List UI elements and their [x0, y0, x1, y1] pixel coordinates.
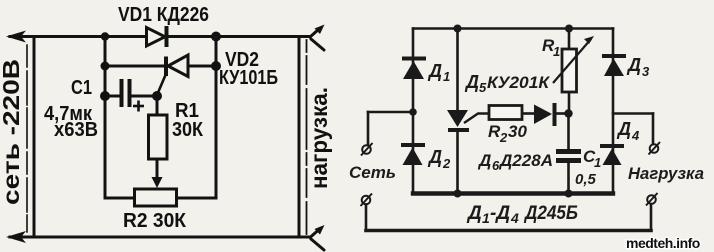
- label C1 plus sign: [133, 101, 144, 112]
- svg-text:сеть -220В: сеть -220В: [0, 59, 24, 205]
- node: gate/C1/R1 junction: [152, 91, 162, 101]
- svg-text:С1: С1: [71, 77, 92, 99]
- node: bottom rail / C1: [565, 190, 573, 198]
- wire: AC node right to load terminal: [613, 112, 653, 115]
- wire: left boundary vertical (thick): [33, 38, 36, 235]
- wire: thyristor anode lead: [456, 29, 459, 111]
- wire: bridge left vertical: [412, 29, 415, 194]
- node: VD2 row / left branch: [101, 62, 110, 71]
- diode Д4: [600, 146, 624, 165]
- wire: C1 row horizontal right: [132, 95, 158, 98]
- wire: R1 bottom lead to wiper arrow: [156, 159, 159, 181]
- wire: mains lower terminal to bottom wire: [365, 205, 368, 231]
- node: top rail / thyristor: [454, 25, 462, 33]
- wire: Д5 gate lead: [464, 114, 489, 124]
- wire: R1 bottom lead: [568, 92, 571, 114]
- svg-text:30: 30: [508, 122, 527, 141]
- svg-text:1: 1: [553, 44, 560, 59]
- fork: load terminal bottom-right: [310, 230, 324, 251]
- node: R1/R2/C1 junction: [564, 109, 572, 117]
- capacitor C1 (left plate): [120, 79, 124, 107]
- svg-text:Д228А: Д228А: [498, 151, 553, 170]
- arrow: R1 adjustment diagonal: [553, 39, 591, 83]
- wire: right boundary vertical (thin broken): [306, 40, 308, 234]
- svg-text:0,5: 0,5: [575, 171, 597, 188]
- wire: inner right vertical branch: [215, 37, 218, 199]
- wire: right boundary vertical (thick): [298, 38, 301, 235]
- svg-text:2: 2: [442, 156, 451, 171]
- svg-text:medteh.info: medteh.info: [626, 235, 700, 251]
- wire: inner left vertical branch: [104, 37, 107, 199]
- wire: VD2 gate lead: [157, 75, 166, 95]
- svg-text:нагрузка.: нагрузка.: [306, 87, 332, 189]
- arrow: mains top (left-pointing): [6, 31, 26, 43]
- svg-text:Д: Д: [466, 203, 482, 224]
- svg-text:Д: Д: [427, 61, 442, 81]
- variable resistor R1 (right schematic): [553, 36, 594, 92]
- terminal: load upper: [649, 142, 661, 155]
- svg-text:6: 6: [492, 158, 500, 173]
- svg-text:х63В: х63В: [54, 119, 98, 141]
- wire: bottom rail: [10, 236, 310, 239]
- wire: bridge right vertical: [612, 29, 615, 194]
- resistor R1 (left schematic): [149, 115, 168, 159]
- diode Д1: [402, 59, 426, 80]
- diode Д6: [534, 103, 555, 126]
- svg-text:R2 30К: R2 30К: [123, 210, 187, 232]
- arrow: R2 wiper: [152, 177, 163, 188]
- wire: load lower terminal drop: [650, 205, 653, 231]
- diode Д2: [401, 145, 425, 165]
- arrow: mains bottom (left-pointing): [6, 231, 26, 243]
- node: AC left / bridge: [409, 108, 417, 116]
- svg-text:1: 1: [482, 210, 490, 226]
- capacitor C1 (right schematic, top plate): [556, 149, 581, 154]
- terminal: mains upper: [361, 143, 373, 156]
- svg-text:Д: Д: [427, 147, 442, 167]
- capacitor C1 (right plate): [128, 79, 132, 107]
- svg-text:30К: 30К: [172, 119, 204, 141]
- svg-text:4: 4: [510, 210, 519, 226]
- svg-text:Д: Д: [616, 119, 631, 139]
- svg-text:КУ201К: КУ201К: [487, 73, 551, 92]
- wire: load upper terminal drop: [652, 114, 655, 144]
- svg-text:Д245Б: Д245Б: [523, 203, 578, 224]
- terminal: mains lower: [361, 194, 373, 207]
- wire: thyristor cathode lead: [456, 132, 459, 194]
- svg-text:Сеть: Сеть: [349, 163, 396, 182]
- potentiometer R2: [135, 189, 177, 206]
- wire: R1 top lead: [568, 29, 571, 51]
- terminal: load lower: [646, 193, 658, 206]
- node: top rail / left branch: [101, 32, 109, 40]
- wire: C1 top lead: [567, 114, 570, 150]
- wire: mains upper terminal drop: [367, 112, 370, 145]
- wire: top rail: [10, 35, 310, 38]
- node: top rail / right branch: [211, 32, 221, 42]
- node: top rail / R1: [565, 25, 573, 33]
- svg-text:Д: Д: [477, 151, 491, 170]
- svg-text:4: 4: [631, 128, 640, 143]
- svg-text:2: 2: [499, 130, 508, 145]
- wire: top rail (bridge +): [413, 27, 613, 30]
- svg-text:1: 1: [594, 155, 601, 170]
- node: bottom rail / thyristor cathode: [454, 190, 462, 198]
- svg-text:Д: Д: [464, 72, 479, 92]
- wire: C1 bottom lead: [567, 162, 570, 194]
- thyristor VD2: [157, 55, 188, 95]
- resistor R2 (right schematic): [489, 106, 522, 120]
- node: VD2 row / right branch: [211, 61, 221, 71]
- wire: outer bottom (mains to load): [366, 229, 651, 233]
- wire: R2 right lead: [177, 197, 217, 200]
- svg-text:VD1 КД226: VD1 КД226: [118, 4, 209, 26]
- svg-text:-Д: -Д: [490, 203, 510, 224]
- wire: R2 to Д6 lead: [522, 112, 534, 115]
- wire: C1 row horizontal left: [105, 95, 120, 98]
- fork: load terminal top-right: [310, 29, 324, 50]
- wire: VD2 row horizontal: [105, 65, 216, 68]
- capacitor C1 (right schematic, bottom plate): [556, 158, 581, 163]
- wire: bottom rail (bridge -): [413, 191, 613, 195]
- wire: R2 left lead: [105, 197, 135, 200]
- svg-text:КУ101Б: КУ101Б: [219, 67, 278, 89]
- wire: left boundary vertical (thin broken): [26, 45, 28, 232]
- thyristor Д5: [447, 110, 489, 130]
- svg-text:Д: Д: [626, 55, 641, 75]
- node: C1 row / left branch: [100, 91, 110, 101]
- svg-text:3: 3: [642, 64, 650, 79]
- wire: AC node left to mains terminal: [368, 111, 413, 114]
- svg-text:5: 5: [479, 80, 487, 95]
- svg-text:Нагрузка: Нагрузка: [628, 164, 704, 183]
- wire: Д6 to C1 node lead: [556, 112, 569, 115]
- svg-text:1: 1: [443, 69, 450, 84]
- diode VD1: [147, 26, 167, 47]
- wire: R1 top lead: [156, 96, 159, 115]
- diode Д3: [602, 56, 626, 76]
